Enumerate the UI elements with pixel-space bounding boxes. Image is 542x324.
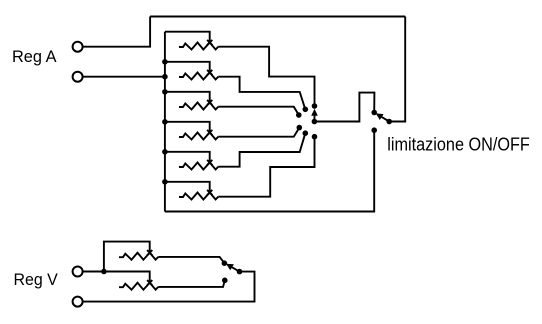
- potentiometer R5: [179, 160, 218, 170]
- wire J3 to R8 wiper: [83, 272, 150, 283]
- wire R3 to SW1 contact 3: [218, 107, 298, 115]
- rotary selector SW1 contact 1: [312, 103, 318, 109]
- switch SW3 lower throw: [222, 278, 228, 284]
- wire SW2 lower throw to bus bottom: [165, 130, 374, 211]
- wire top rail: [150, 16, 405, 18]
- node bus tap R2: [162, 59, 168, 65]
- svg-text:Reg V: Reg V: [14, 271, 58, 289]
- potentiometer R3: [179, 100, 218, 110]
- wire J4 to SW3 common: [83, 272, 255, 302]
- rotary selector SW1 contact 2: [303, 107, 309, 113]
- wire SW1 pole to SW2 upper throw (bump): [314, 93, 374, 122]
- node bus tap R5: [162, 149, 168, 155]
- terminal J4 (Reg V -): [73, 297, 83, 307]
- node junction on J3 wire: [101, 269, 107, 275]
- wire bus to R3 wiper: [165, 92, 210, 103]
- wire bus to R1 wiper: [165, 32, 210, 43]
- switch SW2 arm arrow: [376, 113, 390, 121]
- wire bus to R2 wiper: [165, 62, 210, 73]
- potentiometer R1: [179, 40, 218, 50]
- switch SW2 lower throw: [371, 127, 377, 133]
- node bus tap R4: [162, 119, 168, 125]
- wire right rail to SW2 common: [389, 17, 405, 122]
- potentiometer R8: [119, 280, 158, 290]
- node bus tap R3: [162, 89, 168, 95]
- wire R8 to SW3 lower throw: [158, 280, 225, 287]
- switch SW3 common: [237, 269, 243, 275]
- wire vertical bus: [164, 32, 166, 212]
- wire R4 to SW1 contact 4: [218, 128, 299, 137]
- terminal J1 (Reg A +): [73, 42, 83, 52]
- wire J2 to bus: [83, 76, 165, 78]
- rotary selector SW1 contact 5: [303, 130, 309, 136]
- svg-text:Reg A: Reg A: [12, 48, 57, 66]
- switch SW3 upper throw: [222, 260, 228, 266]
- rotary selector SW1 contact 3: [296, 112, 302, 118]
- switch SW2 upper throw: [371, 110, 377, 116]
- wire bus to R6 wiper: [165, 182, 210, 193]
- node bus junction Reg A: [162, 74, 168, 80]
- wire R5 to SW1 contact 5: [218, 133, 305, 167]
- node bus tap R6: [162, 179, 168, 185]
- rotary selector SW1 pole: [312, 119, 318, 125]
- wire R1 to SW1 contact 1: [218, 47, 314, 106]
- switch SW2 common: [386, 119, 392, 125]
- potentiometer R7: [119, 250, 158, 260]
- wire R6 to SW1 contact 6: [218, 137, 314, 197]
- switch SW3 arm arrow: [226, 264, 240, 272]
- wire bus to R4 wiper: [165, 122, 210, 133]
- potentiometer R2: [179, 70, 218, 80]
- wire SW2 common to right rail: [389, 121, 405, 123]
- terminal J2 (Reg A -): [73, 72, 83, 82]
- rotary selector SW1 wiper arrow: [311, 109, 318, 122]
- rotary selector SW1 contact 6: [312, 134, 318, 140]
- svg-text:limitazione ON/OFF: limitazione ON/OFF: [387, 134, 530, 155]
- potentiometer R4: [179, 130, 218, 140]
- wire R2 to SW1 contact 2: [218, 77, 305, 110]
- rotary selector SW1 contact 4: [297, 125, 303, 131]
- wire junction to R7 wiper: [104, 242, 150, 272]
- wire R7 to SW3 upper throw: [158, 257, 224, 263]
- wire J1 to top rail: [83, 17, 150, 47]
- terminal J3 (Reg V +): [73, 267, 83, 277]
- potentiometer R6: [179, 190, 218, 200]
- wire bus to R5 wiper: [165, 152, 210, 163]
